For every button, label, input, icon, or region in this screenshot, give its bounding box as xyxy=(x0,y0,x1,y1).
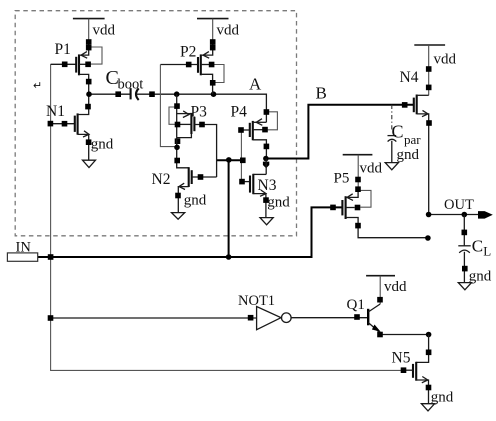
svg-text:B: B xyxy=(316,84,327,103)
svg-text:P1: P1 xyxy=(55,41,71,58)
svg-text:L: L xyxy=(483,244,491,259)
svg-text:Q1: Q1 xyxy=(347,297,365,313)
svg-text:N5: N5 xyxy=(392,350,411,367)
svg-text:gnd: gnd xyxy=(431,389,454,405)
svg-text:gnd: gnd xyxy=(91,136,114,152)
svg-text:P3: P3 xyxy=(191,104,208,121)
svg-text:IN: IN xyxy=(16,240,32,256)
svg-text:N4: N4 xyxy=(400,69,419,86)
svg-text:gnd: gnd xyxy=(267,195,290,211)
svg-text:vdd: vdd xyxy=(360,160,383,176)
svg-text:vdd: vdd xyxy=(384,279,407,295)
svg-text:boot: boot xyxy=(118,77,144,93)
svg-text:A: A xyxy=(249,75,262,94)
svg-text:C: C xyxy=(472,236,483,255)
svg-text:OUT: OUT xyxy=(444,197,474,213)
svg-text:par: par xyxy=(404,132,421,147)
svg-text:C: C xyxy=(392,122,404,142)
svg-text:N3: N3 xyxy=(258,177,277,194)
svg-text:gnd: gnd xyxy=(184,192,207,208)
svg-text:P2: P2 xyxy=(180,44,196,61)
svg-text:vdd: vdd xyxy=(434,52,457,68)
svg-text:vdd: vdd xyxy=(93,23,116,39)
svg-text:N2: N2 xyxy=(152,171,171,188)
svg-text:P4: P4 xyxy=(231,104,248,121)
svg-text:vdd: vdd xyxy=(217,23,240,39)
svg-text:gnd: gnd xyxy=(397,147,420,163)
svg-text:P5: P5 xyxy=(334,171,350,187)
svg-text:↵: ↵ xyxy=(33,80,42,92)
svg-text:N1: N1 xyxy=(46,103,65,120)
